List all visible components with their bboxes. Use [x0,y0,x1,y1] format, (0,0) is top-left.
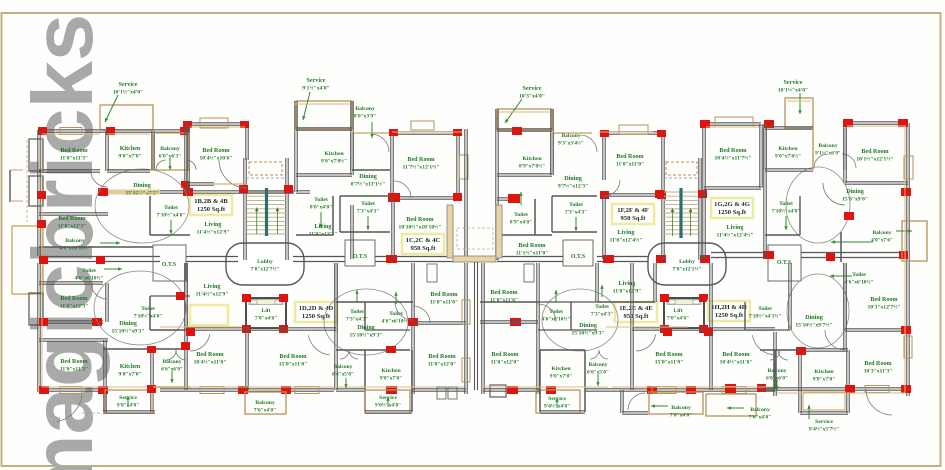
label bed room M4bot 2 [864,361,893,374]
svg-text:Balcony: Balcony [255,400,275,406]
red M3 bed tr [657,130,666,137]
M4 kitchen left wall bottom [799,350,801,413]
svg-text:Balcony: Balcony [163,359,182,365]
M2 bottom left wall [335,263,337,390]
unit label 1H2H4H [708,301,750,321]
M2 bed right window [459,155,468,179]
red M2 bed bl [388,193,400,202]
M2 bot balcony top [336,349,365,351]
door arc M4 bedB [823,183,845,205]
red M4 bottom a [845,385,855,393]
label dining M4 top [842,189,868,202]
svg-text:Balcony: Balcony [562,133,581,139]
far-left balcony spine [12,226,43,294]
red core2 bottom b [686,386,696,394]
wall sill tan [41,137,43,253]
svg-text:7'6"x4'0": 7'6"x4'0" [670,412,692,418]
M3 bed top window [619,125,648,134]
M1 far-left edge line [9,170,11,202]
M1 bot toilet bottom wall [150,329,190,331]
label kitchen M1 bottom [118,364,141,377]
M2 right outer wall lower [465,263,467,394]
window M1 top-left [60,128,82,135]
arrow balcony core2 b [727,406,744,409]
red stair2 left [655,190,664,198]
red left wall mid [37,191,46,199]
service box M3 top [497,109,552,130]
wall sill tan [706,126,759,128]
door arc M2 bot bed2 [413,306,430,323]
M2 bot living bottom wall [336,301,413,303]
svg-text:O.T.S: O.T.S [571,254,586,260]
label bed room H1 [655,352,684,365]
M3 bot toilet bottom [538,329,597,331]
red M2 bed tr [453,129,462,136]
M2 bedroom right wall [457,133,459,198]
M4 bot balcony left [774,350,776,389]
svg-text:15'0"x11'0": 15'0"x11'0" [279,361,308,367]
red spine M2 [386,255,397,263]
svg-text:9'0"x7'6½": 9'0"x7'6½" [775,152,801,159]
bed A door sill tan [214,183,247,185]
svg-text:Bed Room: Bed Room [655,352,682,358]
service box M4 top [785,98,813,128]
svg-text:O.T.S: O.T.S [353,254,368,260]
wall sill tan [599,131,653,133]
central shaft right wall [496,205,502,258]
spine wall M4 a [711,253,768,258]
svg-text:8'9"x7'0½": 8'9"x7'0½" [519,162,545,169]
svg-text:Bed Room: Bed Room [60,148,87,154]
red stair1 right [284,185,293,193]
red spine core2 a [656,255,666,263]
spine wall M2 b [375,257,458,262]
label bed room M3bot 2 [491,352,520,365]
M1 left bay window 1 [29,139,43,171]
label bed room M2 top [403,157,440,170]
M4 bedB bottom wall [845,182,908,184]
M1 kitchen bottom wall [107,170,150,172]
M3 bot living right wall [654,263,656,302]
svg-text:Bed Room: Bed Room [406,217,433,223]
M3 bottom left outer wall [482,263,484,394]
stair2 right wall [699,158,701,240]
M4 bot toilet bottom [745,329,790,331]
svg-text:10'3"x12'7½": 10'3"x12'7½" [867,303,900,310]
svg-text:Bed Room: Bed Room [719,148,746,154]
svg-text:4'0"x7'6": 4'0"x7'6" [871,237,893,243]
label balcony core2 a [670,405,692,418]
M1 bot bed1 right wall [106,283,108,322]
M3 bed bottom wall [604,194,663,196]
label dining M1 bottom [111,321,144,334]
label bed room D1 [194,352,227,365]
label toilet M3bot a [542,309,571,322]
lift core2 [664,298,704,328]
M3 kitchen right wall low [551,133,553,175]
stair1 right wall [286,158,288,238]
svg-text:8'7½"x13'1½": 8'7½"x13'1½" [351,180,386,187]
svg-text:1B,2B & 4B: 1B,2B & 4B [194,198,228,205]
label balcony M4 right [871,230,893,243]
svg-text:Kitchen: Kitchen [522,156,542,162]
label kitchen M3 bottom [550,366,572,379]
M4 balcony right wall [844,128,846,170]
svg-text:4'6"x6'10½": 4'6"x6'10½" [845,278,874,285]
arrow balcony H right [775,380,778,390]
M3 bedroom right wall [662,133,664,158]
window M2bot bed right [462,300,470,324]
svg-text:Toilet: Toilet [314,197,328,203]
M3 living left wall [603,195,605,259]
red stair1 left [239,185,248,193]
svg-text:Service: Service [815,419,833,425]
red lift2 tr [699,294,708,302]
svg-text:7'6"x4'0": 7'6"x4'0" [749,414,771,420]
label bed room M4 A [715,148,752,161]
label dining M4 bottom [795,315,832,328]
svg-text:Toilet: Toilet [569,202,583,208]
svg-text:1C,2C & 4C: 1C,2C & 4C [406,237,441,244]
bed H2 right wall [774,332,776,396]
label bed room M1 bot1 [60,296,89,309]
window M2bot bed2 right [462,358,470,382]
svg-text:Lobby: Lobby [679,259,695,265]
spine wall M4 b [801,253,908,258]
svg-text:Lift: Lift [673,308,682,314]
entry door arc M1 [57,395,82,422]
bed H1/H2 divider [710,332,712,390]
arrow toilet M3bot a [554,290,557,302]
red M2 kitchen top [386,346,396,353]
svg-text:Balcony: Balcony [750,407,770,413]
label balcony right of H2 [766,368,788,381]
svg-text:10'1½"x12'1½": 10'1½"x12'1½" [856,155,893,162]
arrow service M2 [302,92,310,120]
svg-text:Dining: Dining [564,176,582,182]
M2 toilet2 left wall [339,196,341,232]
svg-text:Bed Room: Bed Room [518,243,545,249]
M3 kitchen bottom wall [497,174,552,176]
svg-text:10'4½"x11'0": 10'4½"x11'0" [194,358,227,365]
red M2 bot mid [408,318,418,326]
svg-text:Toilet: Toilet [164,205,178,211]
label toilet M4bot b [749,306,782,319]
label kitchen M4 bottom [813,369,835,382]
svg-text:1G,2G & 4G: 1G,2G & 4G [714,201,750,208]
svg-text:Kitchen: Kitchen [120,364,141,370]
bed A top wall [186,123,247,125]
unit label 1D2D4D [295,302,337,322]
lift core2 door [667,300,701,305]
spine wall core1 left [186,257,238,262]
red core2 bottom c [725,384,736,393]
M1 kitchen right wall [152,131,154,170]
label toilet M1 top [157,205,186,218]
M1 left outer wall [38,130,40,256]
svg-text:Bed Room: Bed Room [196,352,223,358]
label bed room M1 second [58,216,87,229]
window M4bot bed bottom [865,386,889,393]
M1 kitchen-bed partition [106,131,108,171]
M2 service bottom wall [365,411,412,413]
dining oval M1 bottom [94,271,186,345]
door arc M4 bottom balcony b [778,350,788,360]
red M1 bottom b [98,386,108,394]
arrow balcony spine M1 [100,241,120,244]
svg-text:10'1½"x4'0": 10'1½"x4'0" [113,88,143,95]
O.T.S shaft M2 [345,240,375,266]
label service M2 [302,78,330,91]
svg-text:Bed Room: Bed Room [616,154,643,160]
M2 bottom wall a [336,389,365,391]
label toilet M2 b [357,201,379,214]
M1 left outer wall lower [38,263,40,392]
svg-text:950 Sq.ft: 950 Sq.ft [411,245,437,252]
svg-text:Balcony: Balcony [819,143,838,149]
label dining M3 [558,176,588,189]
svg-text:Kitchen: Kitchen [120,146,141,152]
M4 kitchen top wall [765,127,813,129]
red spine M1 b [96,256,105,264]
M1 bed1 bottom wall seg2 [39,170,90,172]
M1 bed1 bottom wall [39,170,100,172]
unit label 1B2B4B [190,195,232,215]
red jamb M1 top-left [38,127,47,135]
svg-text:Kitchen: Kitchen [778,146,798,152]
svg-text:Bed Room: Bed Room [428,354,455,360]
M2 bed top window [411,121,434,130]
svg-text:7'10½"x4'1½": 7'10½"x4'1½" [749,312,782,319]
label kitchen M1 [118,146,141,159]
label OTS M3 [571,254,586,260]
M3 bot toilet divider [570,302,572,330]
arrow toilet M3b [574,217,577,231]
M4 kitchen right wall bottom [847,350,849,413]
svg-text:1D,2D & 4D: 1D,2D & 4D [299,305,334,312]
svg-text:7'10½"x4'0": 7'10½"x4'0" [772,207,801,214]
label lift core2 [667,308,689,321]
M1 left bay window 2 [29,176,43,206]
M1 service left tan [99,105,101,131]
svg-text:O.T.S: O.T.S [777,260,792,266]
svg-text:1F,2F & 4F: 1F,2F & 4F [617,207,649,214]
label service M3 [519,86,545,99]
M2 bot toilet bottom [365,329,410,331]
M2 bot divider [413,322,466,324]
label service M2 bottom [375,395,401,408]
stair2 wall ext2 [699,240,701,260]
dining oval M4 bottom [787,274,849,348]
M3 bedroom left wall [603,133,605,180]
svg-text:11'1½"x11'0": 11'1½"x11'0" [516,249,548,256]
balcony core2 bottom left [649,392,703,414]
stair1 dashed landing line [246,177,286,179]
svg-text:15'0"x11'0": 15'0"x11'0" [655,359,684,365]
M1 midband wall [39,246,153,248]
lobby oval core1 [226,243,304,285]
M1 bottom wall [39,389,103,391]
svg-text:7'10½"x4'0": 7'10½"x4'0" [134,312,163,319]
core1 rooms top sill [160,326,242,328]
M4 bed B left wall [844,123,846,183]
svg-text:4'0"x10'10½": 4'0"x10'10½" [59,244,90,251]
label service M1 [113,82,143,95]
M2 toilet2 top wall [340,195,390,197]
door arc M2 bed door [394,181,411,198]
stair1 wall ext2 [244,238,246,260]
spine wall M2 a [293,257,345,262]
M2 bedroom left wall [391,133,393,198]
unit label 1C2C4C [402,234,444,254]
label balcony M1 [159,146,181,159]
core2 right wall [710,263,712,332]
stair2 landing [666,162,697,175]
stair2 wall ext [662,240,664,260]
label lobby core1 [251,259,280,272]
svg-text:10'3"x4'0": 10'3"x4'0" [519,93,545,99]
wall sill tan [787,100,811,102]
stair2 dashed line [664,177,699,179]
svg-text:11'0"x12'0": 11'0"x12'0" [491,359,520,365]
M4 bed A left wall [703,124,705,188]
label bed room M2bot 2 [428,354,457,367]
door arc M3 bot [538,304,556,322]
wall sill tan [612,386,773,388]
M4 bedB right window [904,156,913,179]
M4 kitchen left wall [764,128,766,170]
M2 toilet bottom wall [296,234,333,236]
svg-text:8'0"x3'9": 8'0"x3'9" [354,113,376,119]
M1 kitchen right bottom [151,349,153,412]
svg-text:7'0"x4'6": 7'0"x4'6" [667,315,689,321]
label balcony M3 [558,133,584,146]
svg-text:Dining: Dining [119,321,137,327]
svg-text:1H,2H & 4H: 1H,2H & 4H [711,304,748,311]
wall sill tan [847,125,906,127]
entry door arc M4 [866,389,892,415]
hatched wall fill [108,190,160,195]
lobby oval core2 [648,243,726,285]
svg-text:7'0"x4'6": 7'0"x4'6" [255,315,277,321]
label service M1 bottom [117,395,139,408]
red core2 h332 a [663,328,672,336]
arrow toilet M1 bottom [104,267,122,270]
label balcony M4 [815,143,841,156]
label bed room M2bot 1 [430,292,458,305]
red spine core2 b [700,255,710,263]
M4 bed A bottom [704,187,761,189]
svg-text:Service: Service [307,78,326,84]
arrow service M1 [105,95,118,122]
door arc M1 bot bed1 [91,283,107,299]
label kitchen M3 [519,156,545,169]
label dining M3 bottom [571,323,604,336]
stair1 wall ext [286,238,288,260]
M3 kitchen right wall [551,109,553,175]
svg-text:9'0"x7'0": 9'0"x7'0" [813,376,835,382]
arrow balcony M2 [370,122,373,138]
spine wall M3 b [597,257,663,262]
svg-text:15'6"x9'6": 15'6"x9'6" [842,196,868,202]
label toilet M3bot b [591,304,613,317]
M1 kitchen+balcony top wall [103,348,190,350]
svg-text:Balcony: Balcony [671,405,691,411]
red jamb M1 top-mid [106,127,115,135]
svg-text:Bed Room: Bed Room [202,148,229,154]
red jamb mid 2 [183,188,193,196]
arrow toilet M1 [169,220,172,234]
stair1 landing [249,162,282,175]
svg-text:4'6"x6'10½": 4'6"x6'10½" [75,274,104,281]
core1 bottom wall [160,389,334,391]
red spine M4 c [899,251,908,259]
svg-text:Dining: Dining [805,315,823,321]
M2 toilet2 bottom wall [340,231,390,233]
red M1 kitchen divider bottom [147,385,156,393]
svg-text:Living: Living [315,224,332,230]
svg-text:1250 Sq.ft: 1250 Sq.ft [197,206,226,213]
red jamb bed A bl [181,181,190,188]
svg-text:Balcony: Balcony [768,368,787,374]
O.T.S shaft M4 [768,245,801,281]
door arc bed H1 [636,335,656,352]
unit label 1E2E4E [615,302,657,322]
label toilet M2bot b [382,311,411,324]
core2 rooms top sill [606,326,688,328]
door arc M1 bottom balcony b [176,350,186,360]
red lift br [279,325,288,333]
M3 toilet2 left wall [551,196,553,232]
label lobby core2 [673,259,702,272]
label bed room M1 bot2 [60,359,88,372]
svg-text:Service: Service [523,86,542,92]
red M4 bottom b [901,385,911,393]
svg-text:11'4½"x12'9": 11'4½"x12'9" [197,228,230,235]
M1 bottom balcony sill [153,386,190,388]
label toilet M4 top [772,201,801,214]
red core1 h332 a [186,328,195,336]
svg-text:Kitchen: Kitchen [324,151,344,157]
bed D1 left wall [185,332,187,390]
dining oval M4 top [786,167,850,243]
M2 bot toilet divider [364,302,366,330]
M3 toilet bottom wall [497,234,552,236]
svg-text:Bed Room: Bed Room [490,290,517,296]
M3 bedroom top wall [604,132,663,134]
red core2 h332 b [704,328,713,336]
svg-text:1E,2E & 4E: 1E,2E & 4E [619,305,653,312]
svg-text:Bed Room: Bed Room [864,361,891,367]
red M3 bottom a [546,386,556,394]
red M4 bedB tl [843,119,853,127]
arrow toilet M2b [366,216,369,230]
M3 kitchen top wall [497,129,552,131]
red M1 bot1 b [92,318,102,326]
M4 bed B top wall [845,122,908,124]
red M4 bed boundary [844,212,854,220]
arrow balcony M4 right [896,229,912,232]
svg-text:950 Sq.ft: 950 Sq.ft [624,313,650,320]
M4 midband toilet wall [840,232,842,262]
red lift2 bl [660,325,669,333]
M1/bedA boundary wall [187,124,189,192]
wall sill tan [904,126,906,393]
svg-text:Balcony: Balcony [355,106,375,112]
red M3 mid big [508,194,520,203]
red M3 bed br [657,191,666,199]
svg-text:10'4½"x11'0": 10'4½"x11'0" [720,358,753,365]
